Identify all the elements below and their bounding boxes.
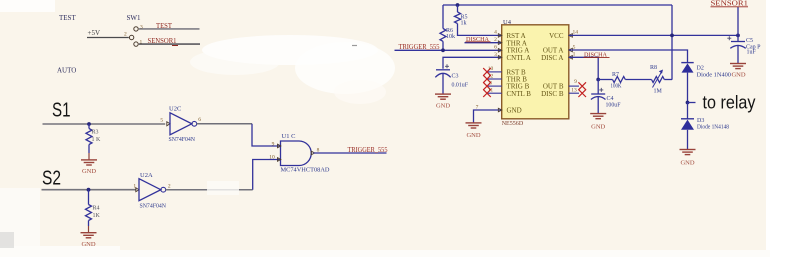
svg-text:10: 10: [269, 155, 275, 161]
wire U2A output: [166, 189, 253, 191]
wire VCC top rail: [443, 4, 672, 6]
svg-text:C5: C5: [746, 38, 753, 44]
pin 10 RST B stub + no-ERC X: [483, 66, 502, 76]
svg-text:2: 2: [168, 184, 171, 190]
svg-text:SW1: SW1: [127, 14, 142, 22]
wire CNTL A to C3: [443, 57, 501, 69]
svg-text:CNTL A: CNTL A: [507, 54, 531, 62]
svg-text:100uF: 100uF: [606, 103, 622, 109]
wire U2C output: [197, 123, 252, 125]
svg-text:VCC: VCC: [549, 32, 564, 40]
svg-text:S1: S1: [52, 99, 71, 122]
svg-text:3: 3: [494, 52, 497, 58]
svg-text:DISC B: DISC B: [541, 90, 564, 98]
pin 11 CNTL B stub + no-ERC X: [483, 88, 502, 98]
svg-text:10k: 10k: [446, 34, 455, 40]
svg-text:U4: U4: [503, 19, 512, 26]
svg-text:C4: C4: [607, 96, 614, 102]
wire THR A / DISCHA stub: [465, 42, 502, 44]
svg-text:7: 7: [476, 105, 479, 111]
pin 9 OUT B stub + no-ERC X: [569, 79, 586, 90]
svg-text:11: 11: [488, 88, 494, 94]
wire SENSOR1 stub: [737, 7, 739, 36]
node R5 top junction: [456, 3, 460, 7]
wire S2 input: [42, 189, 137, 191]
svg-text:D3: D3: [697, 118, 704, 124]
capacitor C4 100uF: [591, 80, 621, 114]
svg-text:13: 13: [571, 88, 577, 94]
svg-text:TRIGGER_555: TRIGGER_555: [348, 146, 388, 154]
node S1/R3 junction: [87, 122, 91, 126]
svg-text:GND: GND: [466, 132, 480, 139]
ground GND (R4): [81, 226, 97, 248]
and-gate U1C MC74VHCT08AD: [269, 133, 330, 174]
wire gate output pin 8: [314, 152, 387, 154]
svg-text:4: 4: [494, 30, 497, 36]
wire +5V to SW1 common: [87, 37, 129, 39]
svg-text:12: 12: [488, 73, 494, 79]
wire VCC pin 14 rail: [569, 34, 738, 36]
ground GND (C4): [590, 114, 606, 131]
svg-text:GND: GND: [82, 168, 96, 175]
svg-text:R3: R3: [92, 130, 99, 136]
svg-text:SN74F04N: SN74F04N: [140, 204, 167, 210]
ground GND (C5): [730, 64, 746, 79]
node R6/trigger junction: [441, 48, 445, 52]
svg-text:SN74F04N: SN74F04N: [169, 137, 196, 143]
svg-text:TRIGGER_555: TRIGGER_555: [399, 43, 440, 51]
wire TEST net: [139, 28, 200, 30]
svg-text:9: 9: [272, 142, 275, 148]
svg-text:100K: 100K: [611, 84, 623, 90]
pin 13 DISC B stub + no-ERC X: [569, 88, 586, 98]
svg-text:TEST: TEST: [156, 22, 173, 30]
resistor R3 1K: [86, 124, 101, 153]
white smear over S2 output wire: [207, 181, 239, 195]
ground GND (pin 7): [466, 123, 482, 139]
inverter U2C SN74F04N: [160, 106, 201, 144]
wire GND pin 7: [474, 110, 502, 123]
svg-text:Diode 1N4148: Diode 1N4148: [697, 125, 729, 131]
svg-text:AUTO: AUTO: [57, 67, 76, 75]
pin 8 TRIG B stub + no-ERC X: [483, 80, 502, 90]
node DISC A / R7 / C4 junction: [596, 78, 600, 82]
svg-text:1uF: 1uF: [747, 50, 757, 56]
svg-text:C3: C3: [452, 74, 459, 80]
svg-text:1k: 1k: [461, 21, 467, 27]
svg-text:0.01uF: 0.01uF: [452, 83, 469, 89]
svg-text:GND: GND: [436, 103, 450, 110]
svg-text:2: 2: [124, 32, 127, 38]
node to-relay junction: [686, 101, 690, 105]
svg-text:1K: 1K: [93, 213, 101, 219]
wire OUT A to diodes: [569, 50, 688, 63]
switch SW1: [124, 14, 143, 46]
svg-text:GND: GND: [731, 72, 745, 79]
wire DISC A: [569, 57, 598, 79]
resistor R4 1K: [86, 190, 101, 226]
svg-text:1 K: 1 K: [92, 137, 102, 143]
svg-text:CNTL B: CNTL B: [507, 90, 532, 98]
wire SENSOR1 net: [139, 43, 200, 45]
svg-text:R7: R7: [612, 72, 619, 78]
ground GND (D3): [680, 150, 696, 167]
wire top rail drop / R8 to VCC: [671, 5, 673, 80]
svg-text:9: 9: [574, 79, 577, 85]
node VCC/C5 junction: [736, 34, 740, 38]
wire TRIGGER_555 to pin 6: [395, 49, 502, 51]
node S2/R4 junction: [87, 188, 91, 192]
resistor R6 10k: [440, 5, 455, 50]
svg-text:GND: GND: [507, 107, 522, 115]
svg-text:S2: S2: [42, 167, 61, 190]
inverter U2A SN74F04N: [133, 172, 171, 210]
svg-text:6: 6: [494, 45, 497, 51]
svg-text:Diode 1N400: Diode 1N400: [697, 73, 732, 79]
ground GND (C3): [435, 94, 451, 109]
svg-text:R4: R4: [93, 206, 100, 212]
svg-text:DISC A: DISC A: [541, 54, 563, 62]
svg-text:10: 10: [488, 66, 494, 72]
capacitor C3 0.01uF: [435, 64, 468, 94]
svg-text:2: 2: [494, 37, 497, 43]
svg-text:to relay: to relay: [703, 93, 756, 113]
svg-text:GND: GND: [81, 241, 95, 248]
svg-text:SENSOR1: SENSOR1: [148, 37, 177, 45]
svg-text:1: 1: [133, 184, 136, 190]
diode D3 1N4148: [681, 103, 729, 150]
svg-text:NE556D: NE556D: [502, 120, 524, 127]
svg-text:3: 3: [140, 25, 143, 31]
ground GND (R3): [81, 153, 97, 175]
IC U4 NE556D: [502, 19, 569, 127]
svg-text:U2C: U2C: [169, 106, 181, 113]
svg-text:TEST: TEST: [59, 14, 76, 22]
pin 12 THR B stub + no-ERC X: [483, 73, 502, 83]
svg-text:U2A: U2A: [140, 172, 153, 179]
svg-text:MC74VHCT08AD: MC74VHCT08AD: [281, 167, 330, 174]
svg-text:GND: GND: [591, 124, 605, 131]
resistor R7 100K: [598, 72, 651, 90]
wire S1 input: [43, 123, 166, 125]
wire to gate pin 9: [252, 124, 280, 146]
resistor R5 1k: [455, 5, 502, 35]
svg-text:6: 6: [198, 117, 201, 123]
svg-text:GND: GND: [680, 160, 694, 167]
svg-text:5: 5: [160, 118, 163, 124]
svg-text:U1 C: U1 C: [282, 133, 296, 140]
svg-text:D2: D2: [697, 66, 704, 72]
diode D2 1N400x: [681, 63, 731, 103]
svg-text:1M: 1M: [654, 89, 663, 95]
resistor R8 1M (variable): [650, 65, 672, 95]
capacitor C5 Cap P 1uF: [727, 35, 761, 63]
wire to gate pin 10: [253, 160, 280, 190]
node VCC/rail junction: [670, 34, 674, 38]
svg-text:14: 14: [573, 30, 579, 36]
svg-text:R8: R8: [650, 65, 657, 71]
svg-text:+5V: +5V: [88, 29, 101, 37]
